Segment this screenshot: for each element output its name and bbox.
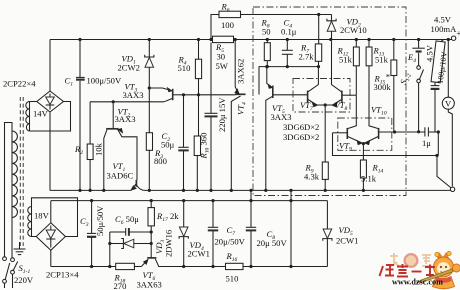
node common emitter pair1 xyxy=(324,103,327,106)
wire zener chain down to R3 xyxy=(148,88,150,133)
capacitor C1 xyxy=(76,40,85,191)
wire R3 to ground bus xyxy=(148,150,150,190)
resistor R15* 300k xyxy=(391,40,397,132)
wire sense drop and diagonal to minus terminal xyxy=(437,156,451,189)
node R2-bus xyxy=(89,189,92,192)
node rail-R12 xyxy=(355,38,358,41)
transistor VT4 3AX62 xyxy=(231,40,245,191)
zener diode VD4 2CW1 xyxy=(179,201,188,267)
svg-text:51k: 51k xyxy=(375,55,389,65)
node VT5 emitter wire66 xyxy=(265,65,268,68)
wire ground bus (left part) xyxy=(50,189,131,191)
svg-text:3DG6D×2: 3DG6D×2 xyxy=(283,132,319,142)
svg-text:5W: 5W xyxy=(216,61,229,71)
battery E4 4.5V xyxy=(412,40,424,66)
wire bus2 link down at 291 xyxy=(290,190,292,266)
watermark chinese text wei ku yi xia xyxy=(380,264,436,277)
node VT4 collector bus xyxy=(230,189,233,192)
svg-text:3AX3: 3AX3 xyxy=(271,112,292,122)
node R8-C4-wire66 a xyxy=(266,65,269,68)
wire R12 line to VT9 collector xyxy=(348,95,357,128)
node R15-VT10 base xyxy=(393,130,396,133)
zener diode VD3 2DW16 xyxy=(110,239,151,249)
transistor VT6 3AX63 xyxy=(141,254,183,267)
bridge rectifier 2CP13x4 diamond xyxy=(36,223,65,251)
resistor R18 270 xyxy=(116,263,135,269)
capacitor C3 50u/50V xyxy=(87,201,96,267)
wire bridge2 top to bus2 xyxy=(50,201,52,223)
svg-text:510: 510 xyxy=(226,274,239,284)
node C1 bus xyxy=(78,189,81,192)
svg-text:4.3k: 4.3k xyxy=(304,172,320,182)
node VD4 bottom bus xyxy=(182,265,185,268)
svg-text:2CW2: 2CW2 xyxy=(118,63,140,73)
wire 18V top lead over to bridge right corner xyxy=(32,198,78,237)
capacitor C8 20u 50V xyxy=(246,201,256,267)
node link bus2 xyxy=(249,199,252,202)
resistor R7 xyxy=(315,15,321,67)
svg-text:270: 270 xyxy=(114,281,127,290)
node R3-bus xyxy=(148,189,151,192)
svg-text:51k: 51k xyxy=(339,55,353,65)
svg-text:2CW10: 2CW10 xyxy=(340,25,367,35)
wire 14V winding to bridge xyxy=(30,101,37,103)
resistor R9 4.3k xyxy=(322,162,328,190)
node R6 line to R7 xyxy=(317,13,320,16)
svg-text:18V: 18V xyxy=(34,211,50,221)
node rail-VD1 xyxy=(148,38,151,41)
capacitor C6 50u xyxy=(110,228,151,236)
wire VT3 collector / VT2 base node xyxy=(90,101,164,103)
node R9 bus xyxy=(324,189,327,192)
wire bridge1 top to main rail xyxy=(49,40,51,92)
capacitor C7 20u/50V xyxy=(208,201,218,267)
node rail-C1 xyxy=(78,38,81,41)
svg-text:www.dzsc.com: www.dzsc.com xyxy=(392,278,443,287)
svg-text:3AX62: 3AX62 xyxy=(236,59,246,84)
svg-text:50μ: 50μ xyxy=(161,140,175,150)
svg-text:2DW16: 2DW16 xyxy=(164,229,174,257)
node VT5 collector bus xyxy=(264,189,267,192)
node C3 bus2 xyxy=(90,199,93,202)
transformer T1 primary winding xyxy=(12,131,17,218)
capacitor 100u/10V tilted electrolytic xyxy=(431,40,446,132)
transistor VT7 xyxy=(308,67,319,108)
node link bus1 xyxy=(249,189,252,192)
svg-text:510: 510 xyxy=(178,63,191,73)
svg-text:220μ 15V: 220μ 15V xyxy=(217,97,227,132)
svg-text:2CW1: 2CW1 xyxy=(336,236,358,246)
svg-text:3AX63: 3AX63 xyxy=(137,280,162,290)
resistor R6 100 bypass xyxy=(211,11,332,39)
svg-text:3AX3: 3AX3 xyxy=(115,114,136,124)
switch S1-2 xyxy=(417,66,424,132)
wire bus1-bus2 link at C8 column xyxy=(250,190,252,200)
node C3 bottom bus xyxy=(90,265,93,268)
svg-text:5.1k: 5.1k xyxy=(361,174,377,184)
svg-text:3DG6D×2: 3DG6D×2 xyxy=(283,122,319,132)
wire main positive rail xyxy=(50,39,452,41)
svg-text:2.7k: 2.7k xyxy=(299,52,315,62)
svg-text:2CW1: 2CW1 xyxy=(188,249,210,259)
node rail-R5-left xyxy=(209,38,212,41)
node rail-R13 xyxy=(367,38,370,41)
node rail-battery xyxy=(417,38,420,41)
transformer T1 core xyxy=(20,97,23,246)
svg-text:4.5V: 4.5V xyxy=(434,15,452,25)
zener diode VD1 2CW2 xyxy=(145,40,154,89)
svg-text:100μ/50V: 100μ/50V xyxy=(87,76,122,86)
node R7 bottom wire66 xyxy=(317,65,320,68)
capacitor C4 xyxy=(282,40,293,67)
node common emitter pair2 xyxy=(362,142,365,145)
wire bus2 (second ground bus) xyxy=(51,200,328,202)
transistor VT9 xyxy=(333,128,364,145)
resistor R17 2k xyxy=(148,201,154,254)
node R14 bus xyxy=(362,189,365,192)
node VD3 right xyxy=(150,242,153,245)
node battery line to feedback xyxy=(417,130,420,133)
transistor VT8 xyxy=(332,41,357,107)
voltmeter V xyxy=(442,41,454,187)
svg-text:4.5V: 4.5V xyxy=(425,44,435,62)
wire bridge2 bottom to bottom bus xyxy=(50,250,52,266)
node R18 left junction xyxy=(108,265,111,268)
node VT4 emitter rail xyxy=(234,38,237,41)
node 291 bottom xyxy=(289,265,292,268)
wire VT10 base feedback line xyxy=(395,131,423,133)
node R4 bottom xyxy=(197,93,200,96)
wire 14V return loop xyxy=(30,102,71,132)
wire VT9 base to sense line xyxy=(333,133,438,156)
output terminal minus xyxy=(450,187,454,191)
svg-text:50: 50 xyxy=(262,27,271,37)
node C7 bus2 xyxy=(211,199,214,202)
svg-text:300k: 300k xyxy=(374,82,392,92)
wire R18 to VT6 emitter xyxy=(134,266,141,268)
watermark mascot xyxy=(418,251,460,288)
wire 1u node down to sense line xyxy=(437,132,439,156)
node voltmeter rail xyxy=(447,38,450,41)
svg-text:220V: 220V xyxy=(14,275,34,285)
resistor R10 360 xyxy=(194,95,200,191)
svg-text:20μ/50V: 20μ/50V xyxy=(215,237,246,247)
svg-text:3AX3: 3AX3 xyxy=(123,90,144,100)
capacitor 1u feedback xyxy=(422,127,438,136)
node C2 bus xyxy=(182,189,185,192)
node C2 top xyxy=(182,93,185,96)
svg-text:800: 800 xyxy=(154,156,167,166)
transistor VT10 xyxy=(363,128,394,145)
node rail-R4 xyxy=(197,38,200,41)
node C7 bottom xyxy=(211,265,214,268)
wire primary bottom lead xyxy=(11,218,13,258)
resistor R12 xyxy=(353,40,359,96)
node C5 bus xyxy=(209,189,212,192)
transistor VT3 3AX3 xyxy=(149,87,183,102)
svg-text:14V: 14V xyxy=(33,109,49,119)
ground (transformer shield) xyxy=(14,242,26,255)
node sense line corner xyxy=(435,154,438,157)
resistor R13 xyxy=(366,40,378,129)
resistor R3 xyxy=(146,133,152,151)
wire base line to VT4 xyxy=(184,94,236,96)
resistor R16 510 on bottom bus xyxy=(226,263,244,269)
dash-dot package boundary VT7 VT8 xyxy=(293,79,350,113)
node VT2 collector bus xyxy=(102,189,105,192)
resistor R5 30 5W on rail xyxy=(213,36,234,42)
transistor VT2 3AX3 xyxy=(104,102,137,191)
svg-text:2CP13×4: 2CP13×4 xyxy=(46,270,79,280)
svg-text:0.1μ: 0.1μ xyxy=(281,27,297,37)
resistor R2 xyxy=(87,102,93,191)
node 1u right junction xyxy=(437,130,440,133)
zener diode VD2 2CW10 xyxy=(327,15,336,40)
node VD1-R3-VT3 emitter xyxy=(148,86,151,89)
node R17 bus2 xyxy=(150,199,153,202)
bridge rectifier 2CP22x4 diamond xyxy=(37,91,64,112)
transistor VT1 3AD6C xyxy=(130,180,145,191)
node C4-wire66 xyxy=(286,65,289,68)
svg-text:2CP22×4: 2CP22×4 xyxy=(3,79,36,89)
resistor R8 xyxy=(264,40,270,67)
svg-text:+: + xyxy=(457,28,460,38)
wire VT7 VT8 common emitter to R9 xyxy=(317,105,333,162)
node VD2-rail xyxy=(329,38,332,41)
wire bottom bus left segment xyxy=(51,266,116,268)
zener diode VD5 2CW1 xyxy=(323,201,332,267)
node C8 bottom xyxy=(249,265,252,268)
node R10 bus xyxy=(196,189,199,192)
wire emitter feed y66 xyxy=(259,67,318,95)
node rail-C4 xyxy=(286,38,289,41)
svg-text:50μ/50V: 50μ/50V xyxy=(95,205,105,236)
capacitor C2 xyxy=(178,95,188,191)
wire 18V bottom to bridge left corner xyxy=(32,236,37,238)
transformer T1 18V secondary winding xyxy=(28,207,32,237)
node C6 right xyxy=(150,230,153,233)
node rail-R8 xyxy=(266,38,269,41)
svg-text:3AD6C: 3AD6C xyxy=(107,171,134,181)
dash-dot block boundary (amplifier section) xyxy=(253,7,406,196)
transformer T1 14V secondary winding xyxy=(26,102,30,132)
node 291 bus2 xyxy=(289,199,292,202)
node VD4 bus2 xyxy=(182,199,185,202)
svg-text:100mA: 100mA xyxy=(431,24,458,34)
output terminal plus xyxy=(451,28,460,40)
svg-text:10k: 10k xyxy=(94,142,104,156)
dash-dot package boundary VT9 VT10 xyxy=(338,118,392,150)
wire bridge1 bottom to ground bus xyxy=(49,112,51,190)
transistor VT5 3AX3 xyxy=(266,67,308,191)
wire C6 left drop xyxy=(109,232,111,267)
svg-text:30: 30 xyxy=(217,52,226,62)
node 291 bus1 xyxy=(289,189,292,192)
svg-text:V: V xyxy=(445,99,452,109)
node rail-R15 xyxy=(392,38,395,41)
svg-text:1μ: 1μ xyxy=(422,138,431,148)
switch S1-1 pole a xyxy=(3,257,10,288)
wire bottom bus middle xyxy=(184,266,226,268)
watermark faded slogan xyxy=(390,253,432,268)
node VD3 left xyxy=(108,242,111,245)
wire ground bus (right of VT1) xyxy=(145,189,452,191)
node VT2 base xyxy=(112,100,115,103)
resistor R14 5.1k xyxy=(360,144,366,191)
capacitor C5 220u/15V xyxy=(205,43,218,191)
svg-text:20μ 50V: 20μ 50V xyxy=(257,238,288,248)
resistor R4 xyxy=(195,40,201,95)
wire primary top lead xyxy=(5,123,13,257)
switch S1-1 pole b xyxy=(11,258,18,288)
svg-text:100: 100 xyxy=(221,20,234,30)
wire bottom bus right xyxy=(243,266,327,268)
